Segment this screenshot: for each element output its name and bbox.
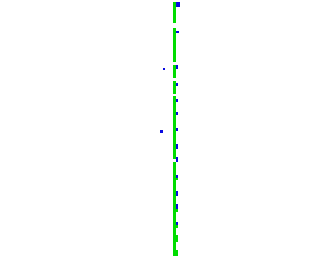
blue marker B8 [176, 144, 178, 149]
blue marker B5 [176, 99, 178, 102]
blue marker B2 [176, 31, 179, 33]
blue marker B6 [176, 112, 178, 115]
blue marker B11 [176, 191, 178, 196]
blue marker B10 [176, 175, 178, 178]
green bump C [176, 225, 178, 228]
blue marker B9 [176, 157, 178, 162]
blue marker B12 [176, 204, 178, 209]
green bar segment 5 [173, 96, 176, 159]
blue marker B7 [176, 128, 178, 131]
green bump D [176, 235, 178, 243]
green bump B [176, 209, 178, 213]
green bar segment 2 [173, 28, 176, 62]
green bar segment 6 [173, 162, 176, 251]
green bar segment 4 [173, 81, 176, 94]
green bump A [176, 178, 178, 180]
blue marker B4 [176, 83, 178, 86]
blue dot D1 [163, 68, 165, 71]
green bar segment 7 wide bottom [173, 250, 179, 256]
blue marker B1 [176, 2, 180, 7]
green bar segment 1 [173, 2, 176, 23]
blue dot D2 [160, 130, 163, 133]
blue marker B3 [176, 65, 178, 69]
blue marker B13 [176, 222, 178, 225]
green bar segment 3 [173, 65, 176, 78]
